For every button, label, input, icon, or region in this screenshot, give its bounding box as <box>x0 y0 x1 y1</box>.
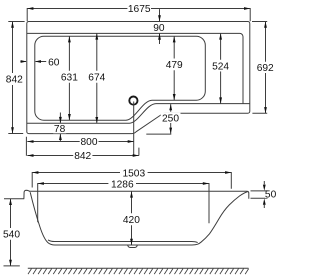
label 1286 <box>109 179 135 190</box>
label 90 <box>152 23 167 34</box>
dimension 250 dim line and arrows <box>170 104 172 134</box>
dimension 800 <box>27 102 134 156</box>
svg-text:1286: 1286 <box>111 179 134 190</box>
label 842 left <box>5 74 24 86</box>
svg-text:842: 842 <box>6 75 23 86</box>
dimension 479 <box>173 36 175 100</box>
label 631 <box>60 72 79 84</box>
dimension 842 left: dim line and arrows <box>12 22 14 134</box>
bath plan: rim ledge line top and right <box>27 33 243 103</box>
side: left end lip and end face <box>24 190 30 199</box>
floor hatching <box>28 269 249 275</box>
side: top rim edge <box>29 190 247 192</box>
svg-text:250: 250 <box>162 113 179 124</box>
svg-text:1675: 1675 <box>128 4 151 15</box>
bath plan: rim ledge line bottom with step curve <box>27 104 250 124</box>
svg-text:800: 800 <box>81 137 98 148</box>
side: left wall, outer bottom, right wall (outer shell) <box>30 191 248 245</box>
svg-text:50: 50 <box>265 189 277 200</box>
label 479 <box>165 59 184 71</box>
label 50 <box>265 189 277 200</box>
dimension 631 <box>68 36 70 120</box>
dimension 692 right: extension lines <box>252 22 267 114</box>
label 674 <box>87 72 106 84</box>
svg-text:540: 540 <box>3 230 20 241</box>
side: drain bump under bottom <box>128 245 138 248</box>
dimension 50: arrows <box>263 181 265 184</box>
dimension 1675 line with end bends <box>27 9 250 22</box>
svg-text:842: 842 <box>74 151 91 162</box>
dimension 540: dim line and arrows <box>10 199 12 266</box>
side: inner bottom line with end forks <box>48 240 198 243</box>
label 420 <box>122 214 141 226</box>
bath plan: basin outline <box>35 36 206 120</box>
dimension 250 extension line <box>146 133 171 135</box>
label 1675 <box>127 4 151 15</box>
svg-text:1503: 1503 <box>122 168 145 179</box>
label 524 <box>211 61 230 73</box>
svg-text:60: 60 <box>48 58 60 69</box>
dimension 692 right: dim line and arrows <box>265 22 267 114</box>
svg-text:78: 78 <box>54 124 66 135</box>
bath plan view: outer rim outline <box>27 22 250 134</box>
label 842 bottom <box>73 151 92 162</box>
svg-text:420: 420 <box>123 215 140 226</box>
label 250 <box>161 113 181 125</box>
side: right end corner and end face <box>247 191 249 199</box>
dimension 78 <box>59 113 61 123</box>
svg-text:631: 631 <box>61 72 78 83</box>
label 800 <box>80 137 99 148</box>
floor line <box>28 267 249 269</box>
label 78 <box>53 124 66 135</box>
dimension 842 left: extension lines <box>8 22 24 134</box>
label 540 <box>2 229 21 241</box>
dimension 1503 <box>32 173 231 189</box>
svg-text:524: 524 <box>212 62 229 73</box>
dimension 60 <box>20 61 46 63</box>
dimension 1286 <box>38 184 209 224</box>
dimension 420 <box>131 191 133 245</box>
drain circle <box>129 97 137 105</box>
svg-text:479: 479 <box>166 60 183 71</box>
dimension 674 <box>96 33 98 123</box>
dimension 50: extension lines <box>251 191 268 198</box>
svg-text:674: 674 <box>88 72 105 83</box>
label 1503 <box>121 168 147 179</box>
dimension 842 bottom <box>26 137 138 156</box>
dimension 90 <box>159 9 161 21</box>
label 692 right <box>256 63 275 75</box>
svg-text:90: 90 <box>153 23 165 34</box>
svg-text:692: 692 <box>257 63 274 74</box>
dimension 524 <box>220 33 222 103</box>
dimension 540: extension lines <box>4 199 25 266</box>
label 60 <box>48 57 61 68</box>
